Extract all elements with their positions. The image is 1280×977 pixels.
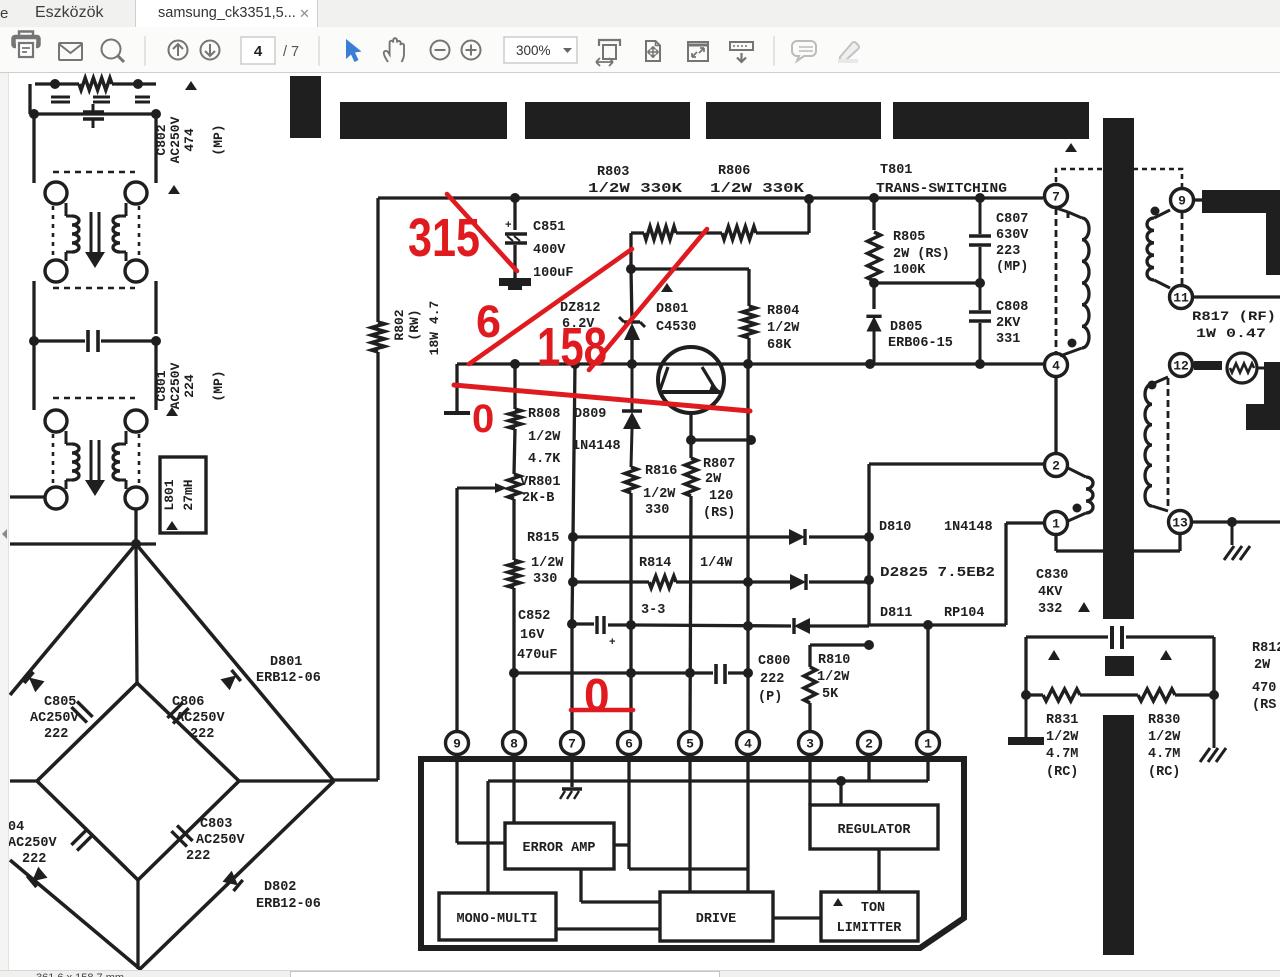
diode D809	[622, 364, 642, 467]
svg-text:1/2W 330K: 1/2W 330K	[710, 182, 805, 197]
svg-text:R810: R810	[818, 653, 850, 668]
wire	[746, 364, 749, 732]
node	[1227, 517, 1237, 527]
resistor R804	[743, 306, 756, 338]
node	[864, 532, 874, 542]
wire	[378, 196, 1043, 199]
red annotation 6	[476, 296, 501, 347]
fit page icon	[646, 41, 660, 61]
wire dashed	[52, 206, 55, 258]
chassis ground	[1224, 522, 1250, 560]
node	[975, 193, 985, 203]
wire	[34, 334, 85, 341]
wire	[691, 438, 751, 441]
red annotation 158	[537, 317, 607, 377]
svg-text:D811: D811	[880, 606, 912, 621]
IC pin 9	[446, 732, 469, 755]
node	[568, 532, 578, 542]
capacitor C800	[716, 664, 725, 684]
svg-text:C805: C805	[44, 695, 76, 710]
marker	[166, 521, 178, 530]
svg-text:13: 13	[1172, 516, 1188, 531]
node	[743, 621, 753, 631]
node	[567, 619, 577, 629]
svg-text:222: 222	[186, 849, 210, 864]
IC pin 3	[799, 732, 822, 755]
label C801	[154, 362, 226, 409]
transformer T801 core segment	[1105, 656, 1134, 676]
wire	[1175, 693, 1214, 696]
label R803	[588, 165, 683, 197]
wire bridge outer BR	[140, 781, 334, 969]
node	[29, 109, 39, 119]
svg-text:4.7K: 4.7K	[528, 452, 561, 467]
wire	[631, 625, 869, 626]
svg-text:AC250V: AC250V	[8, 836, 58, 851]
svg-text:ERB12-06: ERB12-06	[256, 671, 321, 686]
node	[864, 575, 874, 585]
ground	[560, 789, 582, 799]
label D809	[572, 407, 621, 454]
svg-text:400V: 400V	[533, 243, 566, 258]
label C803	[186, 817, 246, 864]
IC pin 4	[737, 732, 760, 755]
svg-text:/ 7: / 7	[283, 44, 299, 60]
svg-text:1/2W: 1/2W	[643, 487, 676, 502]
svg-text:3: 3	[806, 737, 814, 752]
svg-text:C808: C808	[996, 300, 1028, 315]
capacitor C807	[969, 198, 991, 283]
wire	[32, 281, 35, 334]
pin 9	[1171, 189, 1194, 212]
svg-text:R802: R802	[392, 309, 407, 340]
transformer L801 terminal	[45, 487, 67, 509]
polarity dot	[1073, 504, 1082, 513]
resistor R803	[644, 227, 676, 240]
wire	[1080, 693, 1138, 696]
label R817	[1192, 309, 1276, 341]
wire	[10, 495, 45, 498]
svg-text:100K: 100K	[893, 263, 926, 278]
wire	[573, 580, 869, 583]
resistor R801	[79, 78, 112, 90]
connector stub	[444, 364, 470, 413]
svg-text:1N4148: 1N4148	[572, 439, 621, 454]
svg-text:4: 4	[254, 43, 263, 60]
scrolling mode icon	[730, 42, 753, 62]
scan artifact bar	[706, 102, 881, 139]
hand icon	[384, 38, 404, 62]
resistor R802	[372, 322, 385, 352]
svg-text:1/2W: 1/2W	[1148, 730, 1181, 745]
resistor R806	[722, 227, 756, 240]
svg-text:12: 12	[1173, 359, 1189, 374]
svg-text:R830: R830	[1148, 713, 1180, 728]
polarity dot	[1068, 339, 1077, 348]
red annotation 0	[584, 669, 610, 721]
svg-text:C830: C830	[1036, 568, 1068, 583]
wire dashed	[138, 434, 141, 486]
resistor R807	[685, 458, 697, 496]
wire bridge outer TR	[136, 544, 334, 781]
wire	[614, 754, 629, 869]
label C806	[172, 695, 226, 742]
transformer L802 terminal	[125, 182, 147, 204]
wire	[810, 645, 869, 732]
svg-text:AC250V: AC250V	[168, 116, 183, 163]
wire	[728, 671, 748, 674]
svg-text:1/2W: 1/2W	[528, 430, 561, 445]
diode D803	[24, 672, 44, 692]
svg-text:(P): (P)	[758, 690, 782, 705]
wire	[154, 281, 157, 334]
coil L802a	[66, 203, 79, 261]
wire	[512, 754, 515, 823]
node	[686, 435, 696, 445]
red annotation 0	[472, 397, 494, 441]
pin 4	[1045, 354, 1068, 377]
svg-text:DZ812: DZ812	[560, 301, 601, 316]
scan artifact bar	[525, 102, 690, 139]
label R816	[643, 464, 677, 518]
chassis ground	[1200, 695, 1226, 762]
resistor R815	[508, 560, 520, 588]
svg-text:R806: R806	[718, 164, 750, 179]
ground	[1008, 695, 1044, 745]
transformer T801 core upper	[1103, 118, 1134, 619]
marker	[185, 81, 197, 90]
svg-text:2W (RS): 2W (RS)	[893, 247, 950, 262]
node	[626, 668, 636, 678]
svg-text:(RC): (RC)	[1148, 765, 1180, 780]
pin 1	[1045, 512, 1068, 535]
svg-text:DRIVE: DRIVE	[696, 912, 737, 927]
wire	[773, 916, 821, 919]
svg-text:R808: R808	[528, 407, 560, 422]
svg-text:7: 7	[1052, 190, 1060, 205]
pin 2	[1045, 454, 1068, 477]
svg-text:AC250V: AC250V	[176, 711, 226, 726]
svg-text:1/2W 330K: 1/2W 330K	[588, 182, 683, 197]
node	[1209, 690, 1219, 700]
wire	[488, 781, 928, 893]
svg-text:16V: 16V	[520, 628, 545, 643]
label D801	[256, 655, 321, 686]
wire	[138, 969, 141, 977]
red annotation line	[589, 229, 707, 370]
diode D801	[220, 670, 240, 690]
comment bubble icon	[792, 41, 816, 61]
label DZ812	[560, 301, 601, 332]
svg-text:2KV: 2KV	[996, 316, 1021, 331]
svg-text:TRANS-SWITCHING: TRANS-SWITCHING	[876, 182, 1007, 197]
box D810/D2825/D811	[869, 464, 1044, 625]
marker	[1078, 602, 1090, 612]
label R802	[392, 301, 442, 356]
capacitor C803	[171, 825, 192, 846]
svg-text:0: 0	[472, 397, 494, 441]
node	[743, 668, 753, 678]
svg-text:RP104: RP104	[944, 606, 985, 621]
block REGULATOR	[810, 805, 938, 849]
IC box outline	[421, 759, 964, 948]
transformer L802 terminal	[125, 260, 147, 282]
wire	[1056, 535, 1180, 551]
IC pin 8	[503, 732, 526, 755]
wire	[688, 754, 691, 892]
wire	[573, 535, 869, 538]
wire	[1026, 635, 1214, 638]
wire	[134, 509, 137, 544]
wire	[136, 880, 139, 969]
highlighter icon	[838, 42, 859, 61]
svg-text:2W: 2W	[705, 472, 722, 487]
coil L801a	[66, 431, 79, 489]
diode D804	[27, 867, 47, 887]
label D810	[879, 520, 993, 535]
svg-text:AC250V: AC250V	[168, 362, 183, 409]
wire	[874, 281, 980, 284]
wire	[807, 198, 810, 233]
capacitor C852	[597, 616, 616, 649]
svg-text:R807: R807	[703, 457, 735, 472]
resistor R830	[1138, 689, 1175, 701]
zoom in icon	[462, 41, 481, 60]
svg-text:630V: 630V	[996, 228, 1029, 243]
wire dashed	[138, 206, 141, 258]
red annotation underline	[571, 708, 633, 713]
node	[568, 577, 578, 587]
block MONO-MULTI	[439, 893, 556, 940]
svg-text:5: 5	[686, 737, 694, 752]
svg-text:331: 331	[996, 332, 1020, 347]
node	[743, 359, 753, 369]
node	[923, 620, 933, 630]
wire	[32, 341, 35, 410]
svg-text:VR801: VR801	[520, 475, 561, 490]
wire	[513, 198, 516, 230]
label R808	[528, 407, 561, 467]
select cursor icon	[346, 39, 362, 62]
wire	[690, 440, 691, 732]
label C804	[8, 820, 58, 867]
wire	[1026, 693, 1043, 696]
svg-text:100uF: 100uF	[533, 266, 574, 281]
wire	[154, 341, 157, 410]
block TON LIMITER	[821, 892, 918, 941]
svg-text:330: 330	[533, 572, 557, 587]
wire dashed	[53, 397, 135, 400]
svg-text:R817 (RF): R817 (RF)	[1192, 309, 1276, 324]
node	[746, 435, 756, 445]
scan artifact bar	[893, 102, 1089, 139]
svg-text:3-3: 3-3	[641, 603, 665, 618]
marker	[1065, 143, 1077, 152]
label C800	[758, 654, 790, 705]
wire	[629, 867, 748, 870]
label R814	[639, 556, 733, 571]
label C805	[30, 695, 80, 742]
label R812	[1252, 641, 1280, 713]
svg-text:04: 04	[8, 820, 24, 835]
capacitor C851a	[83, 104, 104, 128]
wire	[629, 493, 632, 732]
resistor R808	[509, 409, 521, 429]
svg-text:REGULATOR: REGULATOR	[838, 823, 912, 838]
svg-text:D801: D801	[656, 302, 688, 317]
print icon	[14, 32, 39, 58]
separator	[318, 36, 320, 66]
wire	[746, 754, 749, 892]
transformer L801 terminal	[45, 410, 67, 432]
svg-text:470uF: 470uF	[517, 648, 558, 663]
label C852	[517, 609, 558, 663]
coupling arrow	[85, 440, 105, 496]
node	[626, 620, 636, 630]
node	[509, 668, 519, 678]
svg-text:470: 470	[1252, 681, 1276, 696]
transformer L801 terminal	[125, 410, 147, 432]
svg-text:D2825 7.5EB2: D2825 7.5EB2	[880, 566, 995, 581]
svg-text:TON: TON	[861, 901, 885, 916]
svg-text:11: 11	[1173, 291, 1189, 306]
svg-text:C852: C852	[518, 609, 550, 624]
wire	[1193, 295, 1280, 298]
pin 11	[1170, 286, 1193, 309]
svg-text:R812: R812	[1252, 641, 1280, 656]
wire	[1192, 520, 1280, 523]
wire	[32, 114, 35, 183]
pin 12	[1170, 354, 1193, 377]
capacitor C804	[71, 829, 92, 850]
wire	[1054, 378, 1057, 452]
svg-text:8: 8	[510, 737, 518, 752]
wire	[572, 624, 631, 625]
fusible resistor R817	[1194, 353, 1264, 383]
svg-text:MONO-MULTI: MONO-MULTI	[456, 912, 537, 927]
svg-text:R803: R803	[597, 165, 629, 180]
wire	[556, 927, 660, 930]
svg-text:C800: C800	[758, 654, 790, 669]
IC pin 2	[858, 732, 881, 755]
wire	[926, 625, 929, 732]
transformer T801 core lower	[1103, 715, 1134, 955]
wire	[631, 267, 749, 270]
fullscreen icon	[688, 42, 708, 61]
label L801 box	[160, 457, 206, 533]
svg-text:222: 222	[190, 727, 214, 742]
node	[510, 359, 520, 369]
node	[975, 278, 985, 288]
wire	[457, 362, 1043, 365]
resistor R816	[625, 467, 637, 493]
svg-text:ERB12-06: ERB12-06	[256, 897, 321, 912]
wire	[572, 364, 575, 732]
svg-text:18W 4.7: 18W 4.7	[427, 301, 442, 356]
svg-text:1/2W: 1/2W	[531, 556, 564, 571]
capacitor C801	[88, 330, 98, 352]
search icon	[102, 40, 125, 63]
node	[50, 79, 60, 89]
ground	[499, 278, 531, 290]
wire	[514, 671, 713, 674]
label D802	[256, 880, 321, 912]
svg-text:300%: 300%	[516, 43, 551, 58]
diode D802	[222, 871, 242, 891]
wire	[631, 269, 632, 364]
node	[804, 194, 814, 204]
wire	[872, 198, 875, 309]
wire	[136, 544, 137, 683]
svg-text:D810: D810	[879, 520, 911, 535]
svg-text:6: 6	[625, 737, 633, 752]
svg-text:120: 120	[709, 489, 733, 504]
node	[133, 79, 143, 89]
sidebar strip	[0, 73, 9, 970]
toolbar	[0, 27, 1280, 73]
polarity dot	[1151, 207, 1160, 216]
wire	[689, 412, 692, 440]
svg-text:(RS): (RS)	[703, 506, 735, 521]
wire	[31, 112, 160, 115]
wire	[10, 779, 37, 782]
svg-text:L801: L801	[162, 479, 177, 510]
node	[975, 359, 985, 369]
coil L802b	[113, 203, 126, 261]
label R807	[703, 457, 735, 521]
block ERROR AMP	[505, 823, 614, 869]
page up icon	[169, 41, 188, 60]
winding 12-13	[1145, 377, 1168, 511]
node	[29, 336, 39, 346]
svg-text:D809: D809	[574, 407, 606, 422]
diode D810	[789, 529, 805, 545]
node	[151, 109, 161, 119]
zener DZ812	[619, 317, 645, 340]
label C851	[533, 220, 574, 281]
wire	[35, 82, 156, 85]
capacitor C806	[167, 702, 188, 723]
coupling arrow	[85, 212, 105, 268]
label 3-3	[641, 603, 665, 618]
svg-text:9: 9	[453, 737, 461, 752]
svg-text:T801: T801	[880, 163, 912, 178]
wire	[154, 114, 157, 183]
label VR801	[520, 475, 561, 506]
svg-text:(RW): (RW)	[407, 309, 422, 340]
svg-text:224: 224	[182, 374, 197, 398]
svg-text:(RC): (RC)	[1046, 765, 1078, 780]
wire	[455, 488, 458, 732]
svg-text:(RS: (RS	[1252, 698, 1276, 713]
wire	[334, 778, 378, 781]
svg-text:4: 4	[1052, 359, 1060, 374]
wire bridge inner	[37, 683, 239, 880]
wire	[570, 754, 573, 787]
resistor R810	[804, 667, 816, 703]
svg-text:7: 7	[568, 737, 576, 752]
svg-text:330: 330	[645, 503, 669, 518]
svg-text:1/4W: 1/4W	[700, 556, 733, 571]
capacitor C805	[71, 701, 92, 722]
svg-text:R814: R814	[639, 556, 671, 571]
winding 2-1	[1068, 468, 1093, 521]
node	[570, 359, 580, 369]
diode D2825	[790, 574, 806, 590]
svg-text:27mH: 27mH	[181, 479, 196, 510]
svg-text:AC250V: AC250V	[30, 711, 80, 726]
wire	[631, 231, 809, 234]
